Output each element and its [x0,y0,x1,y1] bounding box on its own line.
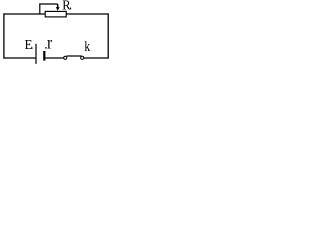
svg-text:E: E [25,37,33,52]
svg-text:k: k [84,39,90,55]
speck after E [32,47,33,48]
wire bottom-right segment [84,57,108,59]
switch blade [67,55,82,57]
wire left side [3,13,5,58]
battery short plate [43,51,45,61]
rheostat wiper arrowhead [56,7,60,11]
speck left of r [45,47,46,49]
wire rheostat riser [39,4,41,14]
wire bottom-left segment [4,57,36,59]
wire rheostat top [39,3,58,5]
wire top-right segment [66,13,108,15]
rheostat wiper arrow stem [57,4,59,8]
resistor R body [45,11,66,17]
svg-text:r: r [47,33,52,53]
battery long plate [35,44,37,64]
svg-text:R: R [62,0,71,13]
speck after R [70,8,71,10]
wire right side [107,13,109,58]
wire top-left segment [4,13,46,15]
wire bottom-middle segment [45,57,64,59]
switch right contact [81,56,84,59]
switch left contact [64,56,67,59]
